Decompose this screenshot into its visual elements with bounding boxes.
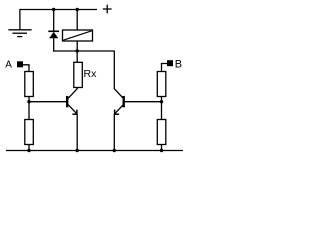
wire bottom rail	[6, 150, 183, 152]
svg-text:Rx: Rx	[84, 68, 98, 80]
wire R4 bottom to rail	[161, 145, 163, 151]
terminal A	[17, 61, 23, 67]
wire R3 bottom to rail	[28, 145, 30, 151]
node relay-Rx junction	[76, 49, 79, 52]
node top rail at relay	[76, 8, 79, 11]
terminal B	[167, 60, 173, 66]
wire Q2 base	[125, 101, 162, 103]
wire Q1 base	[29, 101, 66, 103]
wire R1 bottom to node	[28, 97, 30, 102]
wire Rx bottom to Q1 collector	[76, 88, 78, 90]
relay coil K1	[63, 30, 93, 41]
resistor R3 (lower left)	[25, 120, 34, 145]
wire top supply rail	[19, 9, 97, 11]
wire right drop (lower wire to Q2 collector)	[113, 51, 115, 89]
wire Rx top	[76, 51, 78, 62]
node rail at Q1 emitter	[76, 149, 79, 152]
+ supply label	[103, 5, 112, 14]
node rail at R3	[27, 149, 30, 152]
resistor R2 (upper right)	[157, 72, 166, 97]
wire relay coil bottom	[76, 41, 78, 51]
node rail at Q2 emitter	[113, 149, 116, 152]
wire node to R3 top	[28, 102, 30, 120]
node rail at R4	[160, 149, 163, 152]
wire lower horizontal (diode/relay to right drop)	[53, 50, 115, 52]
wire relay coil top	[76, 10, 78, 31]
wire node to R4 top	[161, 102, 163, 120]
wire Q2 emitter down	[113, 114, 115, 150]
transistor Q2	[114, 89, 123, 115]
wire Q1 emitter down	[76, 114, 78, 150]
wire diode drop	[53, 10, 55, 32]
ground	[8, 10, 31, 37]
resistor R4 (lower right)	[157, 120, 166, 145]
svg-text:B: B	[175, 58, 182, 70]
resistor R1 (upper left)	[25, 72, 34, 97]
diode D1	[48, 31, 59, 38]
transistor Q1	[67, 89, 77, 115]
wire terminal A to R1	[23, 65, 29, 72]
wire diode anode to lower wire	[53, 38, 55, 52]
wire terminal B to R2	[162, 64, 168, 72]
node A divider junction	[27, 100, 30, 103]
node top rail at diode	[52, 8, 55, 11]
svg-text:A: A	[5, 60, 12, 71]
resistor Rx	[74, 62, 83, 87]
node B divider junction	[160, 100, 163, 103]
wire R2 bottom to node	[161, 97, 163, 102]
